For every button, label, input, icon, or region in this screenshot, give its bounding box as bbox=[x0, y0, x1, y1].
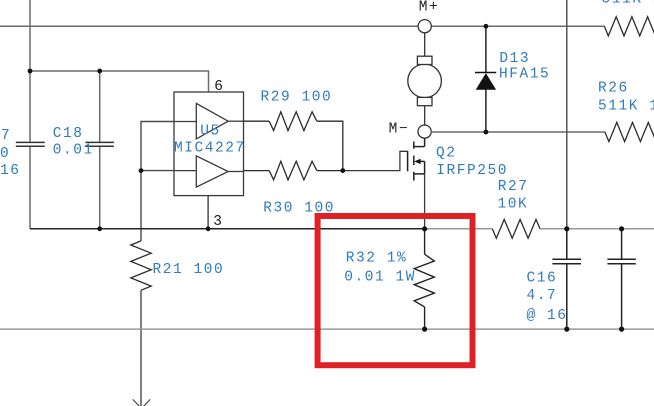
svg-text:R27: R27 bbox=[498, 179, 529, 195]
wire top horizontal rail y=26.3 bbox=[0, 25, 604, 27]
wire R21 to bottom arrow bbox=[140, 290, 142, 406]
svg-text:HFA15: HFA15 bbox=[499, 66, 550, 82]
svg-text:3: 3 bbox=[213, 214, 223, 230]
svg-text:R32 1%: R32 1% bbox=[346, 251, 408, 267]
diode D13 bbox=[475, 26, 496, 132]
junction R29/R30 output node bbox=[340, 168, 345, 173]
label R26 511K 1% bbox=[598, 80, 654, 114]
junction D13 anode / M- rail bbox=[484, 130, 489, 135]
svg-text:R26: R26 bbox=[598, 80, 629, 96]
svg-text:MIC4227: MIC4227 bbox=[174, 141, 246, 157]
svg-text:D13: D13 bbox=[499, 51, 530, 67]
wire vertical x=99.7 (C18 branch) bbox=[99, 71, 101, 229]
wire vertical left bus x=30 bbox=[29, 0, 31, 229]
junction at C18 branch / mid rail bbox=[97, 226, 102, 231]
svg-text:511K 1%: 511K 1% bbox=[598, 99, 654, 115]
diode D13 triangle bbox=[476, 73, 496, 90]
value label C17 (clipped) bbox=[0, 128, 21, 179]
Q2 body arrow bbox=[414, 159, 420, 164]
junction right cap top / mid rail bbox=[619, 226, 624, 231]
label U5 MIC4227 bbox=[174, 124, 246, 157]
wire Q2 source down to R32 node bbox=[424, 174, 426, 229]
red highlight box around R32 bbox=[318, 216, 473, 365]
terminal M+ circle bbox=[418, 20, 431, 33]
capacitor C17 (partial label at edge) bbox=[16, 142, 45, 146]
svg-text:10K: 10K bbox=[498, 196, 529, 212]
wire vertical bus x=566.8 bbox=[566, 0, 568, 229]
resistor R29 bbox=[244, 112, 343, 171]
capacitor (right, unlabeled) bbox=[607, 229, 635, 329]
capacitor C18 bbox=[85, 142, 114, 146]
svg-text:C16: C16 bbox=[527, 270, 558, 286]
svg-text:M−: M− bbox=[389, 122, 410, 138]
svg-text:IRFP250: IRFP250 bbox=[436, 163, 508, 179]
motor symbol bbox=[408, 33, 442, 126]
label D13 HFA15 bbox=[499, 51, 550, 82]
svg-text:7: 7 bbox=[1, 128, 11, 144]
value label R32 1% 0.01 1W bbox=[344, 251, 416, 286]
wire bottom rail y=329.1 bbox=[0, 328, 654, 330]
junction at U5 input net bbox=[139, 168, 144, 173]
svg-text:6: 6 bbox=[214, 79, 224, 95]
resistor R32 bbox=[414, 229, 434, 329]
wire U5 input net (to both amps) bbox=[141, 122, 174, 241]
svg-text:511K 1%: 511K 1% bbox=[602, 0, 654, 8]
off-page arrow (down) bbox=[133, 399, 150, 406]
op-amp U5 box bbox=[174, 92, 244, 196]
junction R32 bottom / bottom rail bbox=[422, 327, 427, 332]
resistor R26 bbox=[605, 122, 654, 141]
junction C16 bottom / bottom rail bbox=[564, 327, 569, 332]
svg-text:Q2: Q2 bbox=[436, 145, 457, 161]
capacitor C16 bbox=[552, 229, 581, 329]
svg-text:C18: C18 bbox=[53, 126, 84, 142]
svg-text:R29 100: R29 100 bbox=[261, 89, 333, 105]
label R27 10K bbox=[498, 179, 529, 212]
svg-text:@ 16: @ 16 bbox=[527, 308, 568, 324]
svg-text:16: 16 bbox=[0, 163, 21, 179]
svg-text:U5: U5 bbox=[200, 124, 221, 140]
resistor R27 bbox=[492, 219, 540, 238]
resistor R21 bbox=[131, 241, 151, 290]
junction at C18 branch / y=71 wire bbox=[97, 69, 102, 74]
label Q2 IRFP250 bbox=[436, 145, 508, 179]
op-amp U5 driver A bbox=[174, 103, 244, 138]
value label C18 0.01 bbox=[53, 126, 94, 159]
junction at pin 3 / mid rail bbox=[206, 226, 211, 231]
wire mid rail y=228.8 (dark left part) bbox=[30, 228, 425, 230]
svg-text:0.01 1W: 0.01 1W bbox=[344, 270, 416, 286]
wire horizontal y=71 to pin 6 bbox=[30, 71, 209, 92]
svg-text:4.7: 4.7 bbox=[527, 288, 558, 304]
junction right cap bottom / bottom rail bbox=[619, 327, 624, 332]
junction C16 top / mid rail bbox=[564, 226, 569, 231]
resistor (top right, clipped) bbox=[604, 17, 654, 36]
svg-text:0.01: 0.01 bbox=[53, 143, 94, 159]
wire M- rail bbox=[431, 131, 605, 133]
junction D13 cathode / M+ rail bbox=[484, 24, 489, 29]
pin 3 stub bbox=[207, 196, 209, 229]
op-amp U5 driver B bbox=[174, 156, 244, 187]
svg-text:M+: M+ bbox=[419, 0, 440, 15]
transistor Q2 (N-MOSFET) bbox=[408, 138, 425, 181]
junction Q2 source / R32 top node bbox=[422, 226, 427, 231]
terminal M- circle bbox=[418, 125, 431, 138]
wire mid rail y=228.8 (gray right part) bbox=[425, 228, 654, 230]
svg-text:R21 100: R21 100 bbox=[153, 262, 225, 278]
svg-text:0: 0 bbox=[0, 146, 10, 162]
wire gate net bbox=[343, 151, 408, 170]
label C16 4.7 @ 16 bbox=[527, 270, 568, 324]
junction at left bus / y=71 wire bbox=[28, 69, 33, 74]
resistor R30 bbox=[244, 161, 343, 180]
